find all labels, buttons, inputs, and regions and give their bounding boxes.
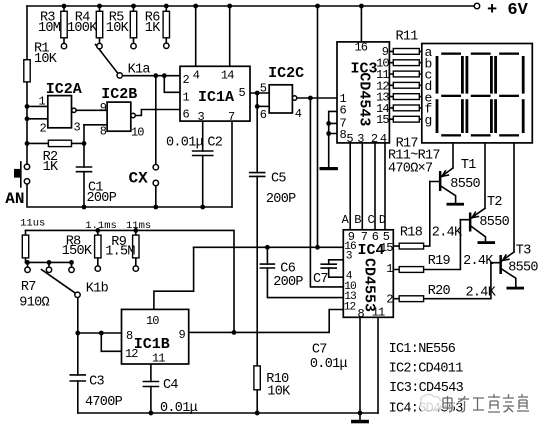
svg-text:2: 2 (40, 122, 47, 136)
node dots K1a net (153, 73, 166, 78)
7-segment display block (422, 44, 533, 143)
capacitor C3 plates (70, 375, 85, 381)
svg-text:3: 3 (198, 110, 205, 124)
wire: IC3 pin16 to bus (360, 6, 362, 42)
label C1 value (87, 181, 117, 206)
wire: left supply bus (26, 6, 28, 164)
terminals under R3-R6 (61, 43, 169, 49)
wire: IC1A pin5 to IC2C pin5 (250, 92, 269, 94)
wire: IC2B pin8 stub (84, 124, 107, 126)
resistor R7 910ohm (25, 230, 27, 262)
svg-text:3: 3 (346, 251, 352, 263)
wire: IC1A pin4 to bus (195, 6, 197, 66)
svg-text:2: 2 (371, 132, 378, 146)
svg-text:R7: R7 (21, 280, 36, 295)
svg-text:4: 4 (380, 132, 387, 146)
svg-text:CX: CX (129, 170, 149, 188)
wire: IC2C pin6 stub (257, 105, 269, 107)
wire: IC2B out jog to IC1A pin6 (135, 110, 180, 116)
svg-text:4: 4 (295, 107, 302, 121)
node dots IC1B nets (75, 330, 236, 335)
segment verticals lower (436, 99, 439, 133)
label C5 value (266, 172, 296, 208)
capacitor C1 plates (77, 167, 92, 172)
svg-text:R19: R19 (428, 254, 451, 269)
svg-text:7: 7 (361, 230, 368, 244)
label C6 value (273, 261, 303, 290)
wire: CX vertical (155, 76, 157, 165)
label R20 value (428, 284, 497, 300)
node dots left bus (25, 104, 30, 146)
resistor R9 1.5M (135, 230, 137, 265)
wire: C5/R10 vertical net (256, 106, 258, 413)
svg-text:A: A (342, 213, 350, 227)
svg-text:2: 2 (386, 292, 393, 306)
label R7 value (19, 280, 49, 311)
svg-text:9: 9 (100, 101, 107, 115)
label R11~R17 470ohm x7 (388, 149, 440, 177)
label IC list (389, 342, 464, 417)
svg-text:IC1A: IC1A (198, 89, 234, 106)
svg-text:CD4543: CD4543 (356, 72, 373, 126)
terminal +6V (474, 3, 479, 8)
watermark text 电子工程专辑 (vector strokes) (443, 394, 529, 412)
svg-text:1.5M: 1.5M (105, 245, 135, 260)
wire: IC4 pin8 to bus (359, 317, 361, 413)
op-amp gate IC2C (269, 85, 292, 113)
svg-text:K1a: K1a (128, 62, 151, 77)
svg-text:2: 2 (183, 73, 190, 87)
wire: contact leads (28, 262, 72, 267)
svg-text:8: 8 (100, 124, 107, 138)
label T2 8550 (479, 195, 509, 230)
node dots timing bus (95, 228, 138, 233)
svg-text:8: 8 (358, 307, 365, 321)
wire: C3 to bottom bus (77, 333, 79, 413)
watermark logo (419, 392, 443, 415)
node dots misc mid (82, 91, 332, 146)
svg-text:11ms: 11ms (126, 220, 151, 232)
label T3 8550 (508, 244, 538, 276)
svg-text:D: D (379, 213, 386, 227)
switch K1a arm (96, 45, 118, 74)
svg-text:9: 9 (179, 328, 186, 342)
svg-text:6: 6 (372, 230, 379, 244)
switch K1b arm (42, 270, 76, 294)
svg-text:6: 6 (183, 108, 190, 122)
wire: IC1A pin14 to bus (229, 6, 231, 66)
pin numbers IC2B (100, 101, 145, 140)
wire: IC1A pin7 down to bus (231, 121, 233, 207)
svg-text:C4: C4 (163, 378, 178, 393)
ground: IC4 main ground (359, 413, 361, 420)
op-amp gate IC2A (48, 96, 72, 128)
svg-text:IC2A: IC2A (46, 81, 82, 98)
wire: IC1B pin9 to IC4 pin12 (189, 310, 344, 333)
wire: display commons down (453, 143, 514, 252)
wire: IC1A pin3 through C2 to bus (202, 121, 204, 207)
wire: IC4 pin16 rail (194, 246, 344, 248)
svg-text:R11: R11 (396, 30, 419, 45)
resistor R6 1K (165, 6, 167, 43)
IC U1 IC1A NE556 half (180, 66, 250, 121)
wire: AN bottom to ground bus y=207 (27, 184, 232, 207)
wire: jog to IC1B pin12 (101, 333, 121, 351)
capacitor C7 plates (321, 264, 336, 268)
resistor R18 2.4K (393, 182, 430, 247)
svg-text:1K: 1K (145, 21, 161, 36)
IC U1 IC1B NE556 half (122, 309, 189, 364)
svg-text:8: 8 (126, 329, 133, 343)
svg-text:C7: C7 (313, 272, 328, 287)
IC U3 IC3 CD4543 (337, 42, 389, 143)
wire: +6V vertical to IC4 pin16 rail (317, 6, 319, 247)
wire: timing bus 11us to IC1B pin9 (26, 230, 235, 332)
svg-text:12: 12 (125, 347, 138, 361)
pin numbers IC1B (125, 314, 186, 366)
svg-text:6: 6 (260, 108, 267, 122)
svg-text:1.1ms: 1.1ms (85, 220, 117, 232)
svg-text:200P: 200P (87, 191, 117, 206)
terminal K1b pivot (75, 292, 80, 297)
label R2 value (43, 150, 59, 175)
label R3 value (38, 11, 61, 37)
resistor R1 10K (24, 60, 30, 82)
resistor R8 150K (97, 230, 99, 265)
pin numbers IC1A (183, 69, 246, 125)
wire: +6V top bus (27, 5, 474, 7)
terminals CX (153, 165, 158, 186)
wire: R7 contact row (26, 261, 72, 263)
wire: CX bottom to bus (155, 186, 157, 207)
svg-text:910Ω: 910Ω (19, 296, 49, 311)
node dots bus y207 (82, 205, 206, 210)
svg-text:C5: C5 (271, 172, 286, 187)
resistor R3 10M (63, 6, 65, 43)
resistor R4 100K (99, 6, 101, 43)
svg-text:10: 10 (146, 314, 159, 328)
capacitor C7 leads (329, 260, 344, 277)
svg-text:200P: 200P (266, 192, 296, 207)
wire: jog to IC1A pin1 (164, 76, 180, 93)
wire: R2/C1 vertical (83, 125, 85, 207)
svg-text:1K: 1K (43, 160, 59, 175)
svg-text:T1: T1 (461, 158, 476, 173)
wire: IC2A out to IC2B pin9 (76, 109, 107, 111)
wire: IC3 to IC4 BCD lines (350, 143, 385, 230)
resistor R5 10K (133, 6, 135, 43)
push button AN (20, 162, 22, 187)
capacitor C2 plates (193, 151, 213, 156)
node dots R7 contact row (25, 260, 74, 265)
transistor Q T3 8550 (491, 252, 524, 290)
transistor Q T1 8550 (430, 168, 464, 206)
svg-text:T2: T2 (487, 195, 502, 210)
wire: IC2A pin2 stub (27, 118, 48, 120)
label R19 value (428, 254, 495, 269)
resistor R20 2.4K (393, 263, 491, 299)
pin numbers IC2A (39, 95, 81, 136)
svg-text:15: 15 (376, 113, 389, 127)
svg-text:T3: T3 (516, 244, 531, 259)
svg-text:7: 7 (228, 110, 235, 124)
wire: IC4 pin11 to bus (377, 317, 379, 413)
svg-text:10K: 10K (34, 52, 58, 67)
resistor R10 10K (254, 366, 260, 390)
terminal K1a pivot (117, 73, 122, 78)
svg-text:16: 16 (355, 41, 368, 55)
terminals AN button (24, 164, 29, 184)
svg-text:AN: AN (5, 190, 24, 208)
label R9 value (105, 235, 135, 260)
capacitor C5 plates (250, 173, 265, 177)
svg-text:CD4553: CD4553 (361, 258, 378, 312)
label R10 value (266, 372, 291, 400)
svg-text:14: 14 (221, 69, 234, 83)
wire: IC1B pin11 through C4 to bus (150, 364, 152, 413)
segment horizontals (441, 53, 461, 55)
svg-text:1: 1 (39, 95, 46, 109)
wire: IC2A pin1 stub (27, 105, 48, 107)
svg-text:IC2C: IC2C (268, 65, 304, 82)
label R1 value (34, 42, 58, 68)
resistors R11-R17 470ohm (389, 49, 421, 123)
node dots pin16 rail (265, 245, 320, 250)
svg-text:4: 4 (193, 69, 200, 83)
svg-text:C2: C2 (207, 136, 222, 151)
wire: IC2C out down to IC4 pin10 (310, 98, 343, 287)
svg-text:8550: 8550 (479, 215, 509, 230)
wire: IC1B pin8 stub (78, 332, 122, 334)
svg-text:10K: 10K (267, 385, 291, 400)
svg-text:1: 1 (386, 262, 393, 276)
svg-text:C: C (368, 213, 375, 227)
wire: K1a to IC1A pin2 (122, 75, 180, 77)
wire: IC2C out to IC3 pin1 (297, 97, 337, 99)
svg-text:10M: 10M (38, 21, 61, 36)
svg-text:IC1B: IC1B (134, 336, 170, 353)
label R5 value (106, 11, 130, 37)
svg-text:3: 3 (357, 132, 364, 146)
svg-text:0.01μ: 0.01μ (310, 357, 348, 372)
resistor R2 1K (48, 140, 71, 146)
svg-text:R20: R20 (428, 284, 451, 299)
pin numbers IC2C (260, 82, 302, 122)
svg-text:15: 15 (380, 241, 393, 255)
pin numbers IC3 (340, 41, 390, 146)
label R8 value (62, 235, 93, 259)
svg-text:10K: 10K (106, 21, 130, 36)
capacitor C4 plates (143, 382, 158, 387)
label C4 value (160, 378, 198, 416)
wire: IC3 pins 6,7,8 tie to ground (329, 111, 337, 167)
svg-text:3: 3 (74, 120, 81, 134)
wire: R2 leads (27, 142, 84, 144)
svg-text:C3: C3 (89, 375, 104, 390)
label C3 value (85, 375, 123, 410)
svg-text:100K: 100K (67, 21, 98, 36)
svg-text:2.4K: 2.4K (432, 225, 463, 240)
ground: IC3 (320, 167, 338, 170)
wire: pin5 node vertical (256, 93, 258, 106)
svg-text:8550: 8550 (508, 260, 538, 275)
segment letters a-g (425, 45, 433, 128)
label R6 value (145, 11, 161, 37)
node dots bottom bus (149, 411, 363, 416)
segment verticals upper (436, 56, 439, 94)
wire: K1b pivot down to pin8 node (77, 297, 79, 333)
svg-text:470Ω×7: 470Ω×7 (388, 162, 433, 177)
svg-text:K1b: K1b (86, 281, 109, 296)
svg-text:C7: C7 (312, 342, 327, 357)
capacitor C6 leads (267, 247, 343, 297)
svg-text:1: 1 (183, 91, 190, 105)
label C7 value (310, 342, 348, 372)
label T1 8550 (450, 158, 480, 192)
svg-text:0.01μ: 0.01μ (166, 136, 204, 151)
svg-text:5: 5 (260, 82, 267, 96)
svg-text:8550: 8550 (450, 177, 480, 192)
svg-text:0.01μ: 0.01μ (160, 401, 198, 416)
terminals K1b contacts (25, 266, 139, 273)
svg-text:11: 11 (152, 352, 165, 366)
label C2 value (166, 136, 223, 151)
resistor R19 2.4K (393, 220, 460, 270)
svg-text:R18: R18 (400, 225, 423, 240)
svg-text:200P: 200P (273, 275, 303, 290)
svg-text:5: 5 (346, 132, 353, 146)
svg-text:IC2:CD4011: IC2:CD4011 (389, 362, 464, 377)
svg-text:+ 6V: + 6V (487, 1, 529, 20)
capacitor C6 plates (260, 264, 274, 268)
svg-text:4700P: 4700P (85, 395, 123, 410)
svg-text:150K: 150K (62, 244, 93, 259)
pin numbers IC4 (344, 230, 394, 321)
svg-text:12: 12 (344, 301, 356, 313)
node dots top bus (62, 4, 364, 9)
svg-text:10: 10 (131, 126, 144, 140)
svg-text:g: g (425, 113, 432, 128)
label R4 value (67, 11, 98, 37)
svg-text:11: 11 (372, 306, 385, 320)
pin letters IC4 ABCD (342, 213, 386, 227)
IC U4 IC4 CD4553 (343, 230, 393, 317)
svg-text:IC1:NE556: IC1:NE556 (389, 342, 456, 357)
transistor Q T2 8550 (460, 208, 495, 244)
svg-text:2.4K: 2.4K (463, 254, 494, 269)
svg-text:B: B (354, 213, 361, 227)
wire: bottom ground bus (78, 412, 378, 414)
svg-text:IC2B: IC2B (101, 86, 137, 103)
op-amp gate IC2B (107, 102, 131, 131)
wire: IC1B pin10 to rail (154, 247, 194, 309)
label R18 value (400, 225, 463, 240)
svg-text:2.4K: 2.4K (466, 285, 497, 300)
svg-text:11us: 11us (20, 218, 45, 230)
svg-text:5: 5 (239, 86, 246, 100)
